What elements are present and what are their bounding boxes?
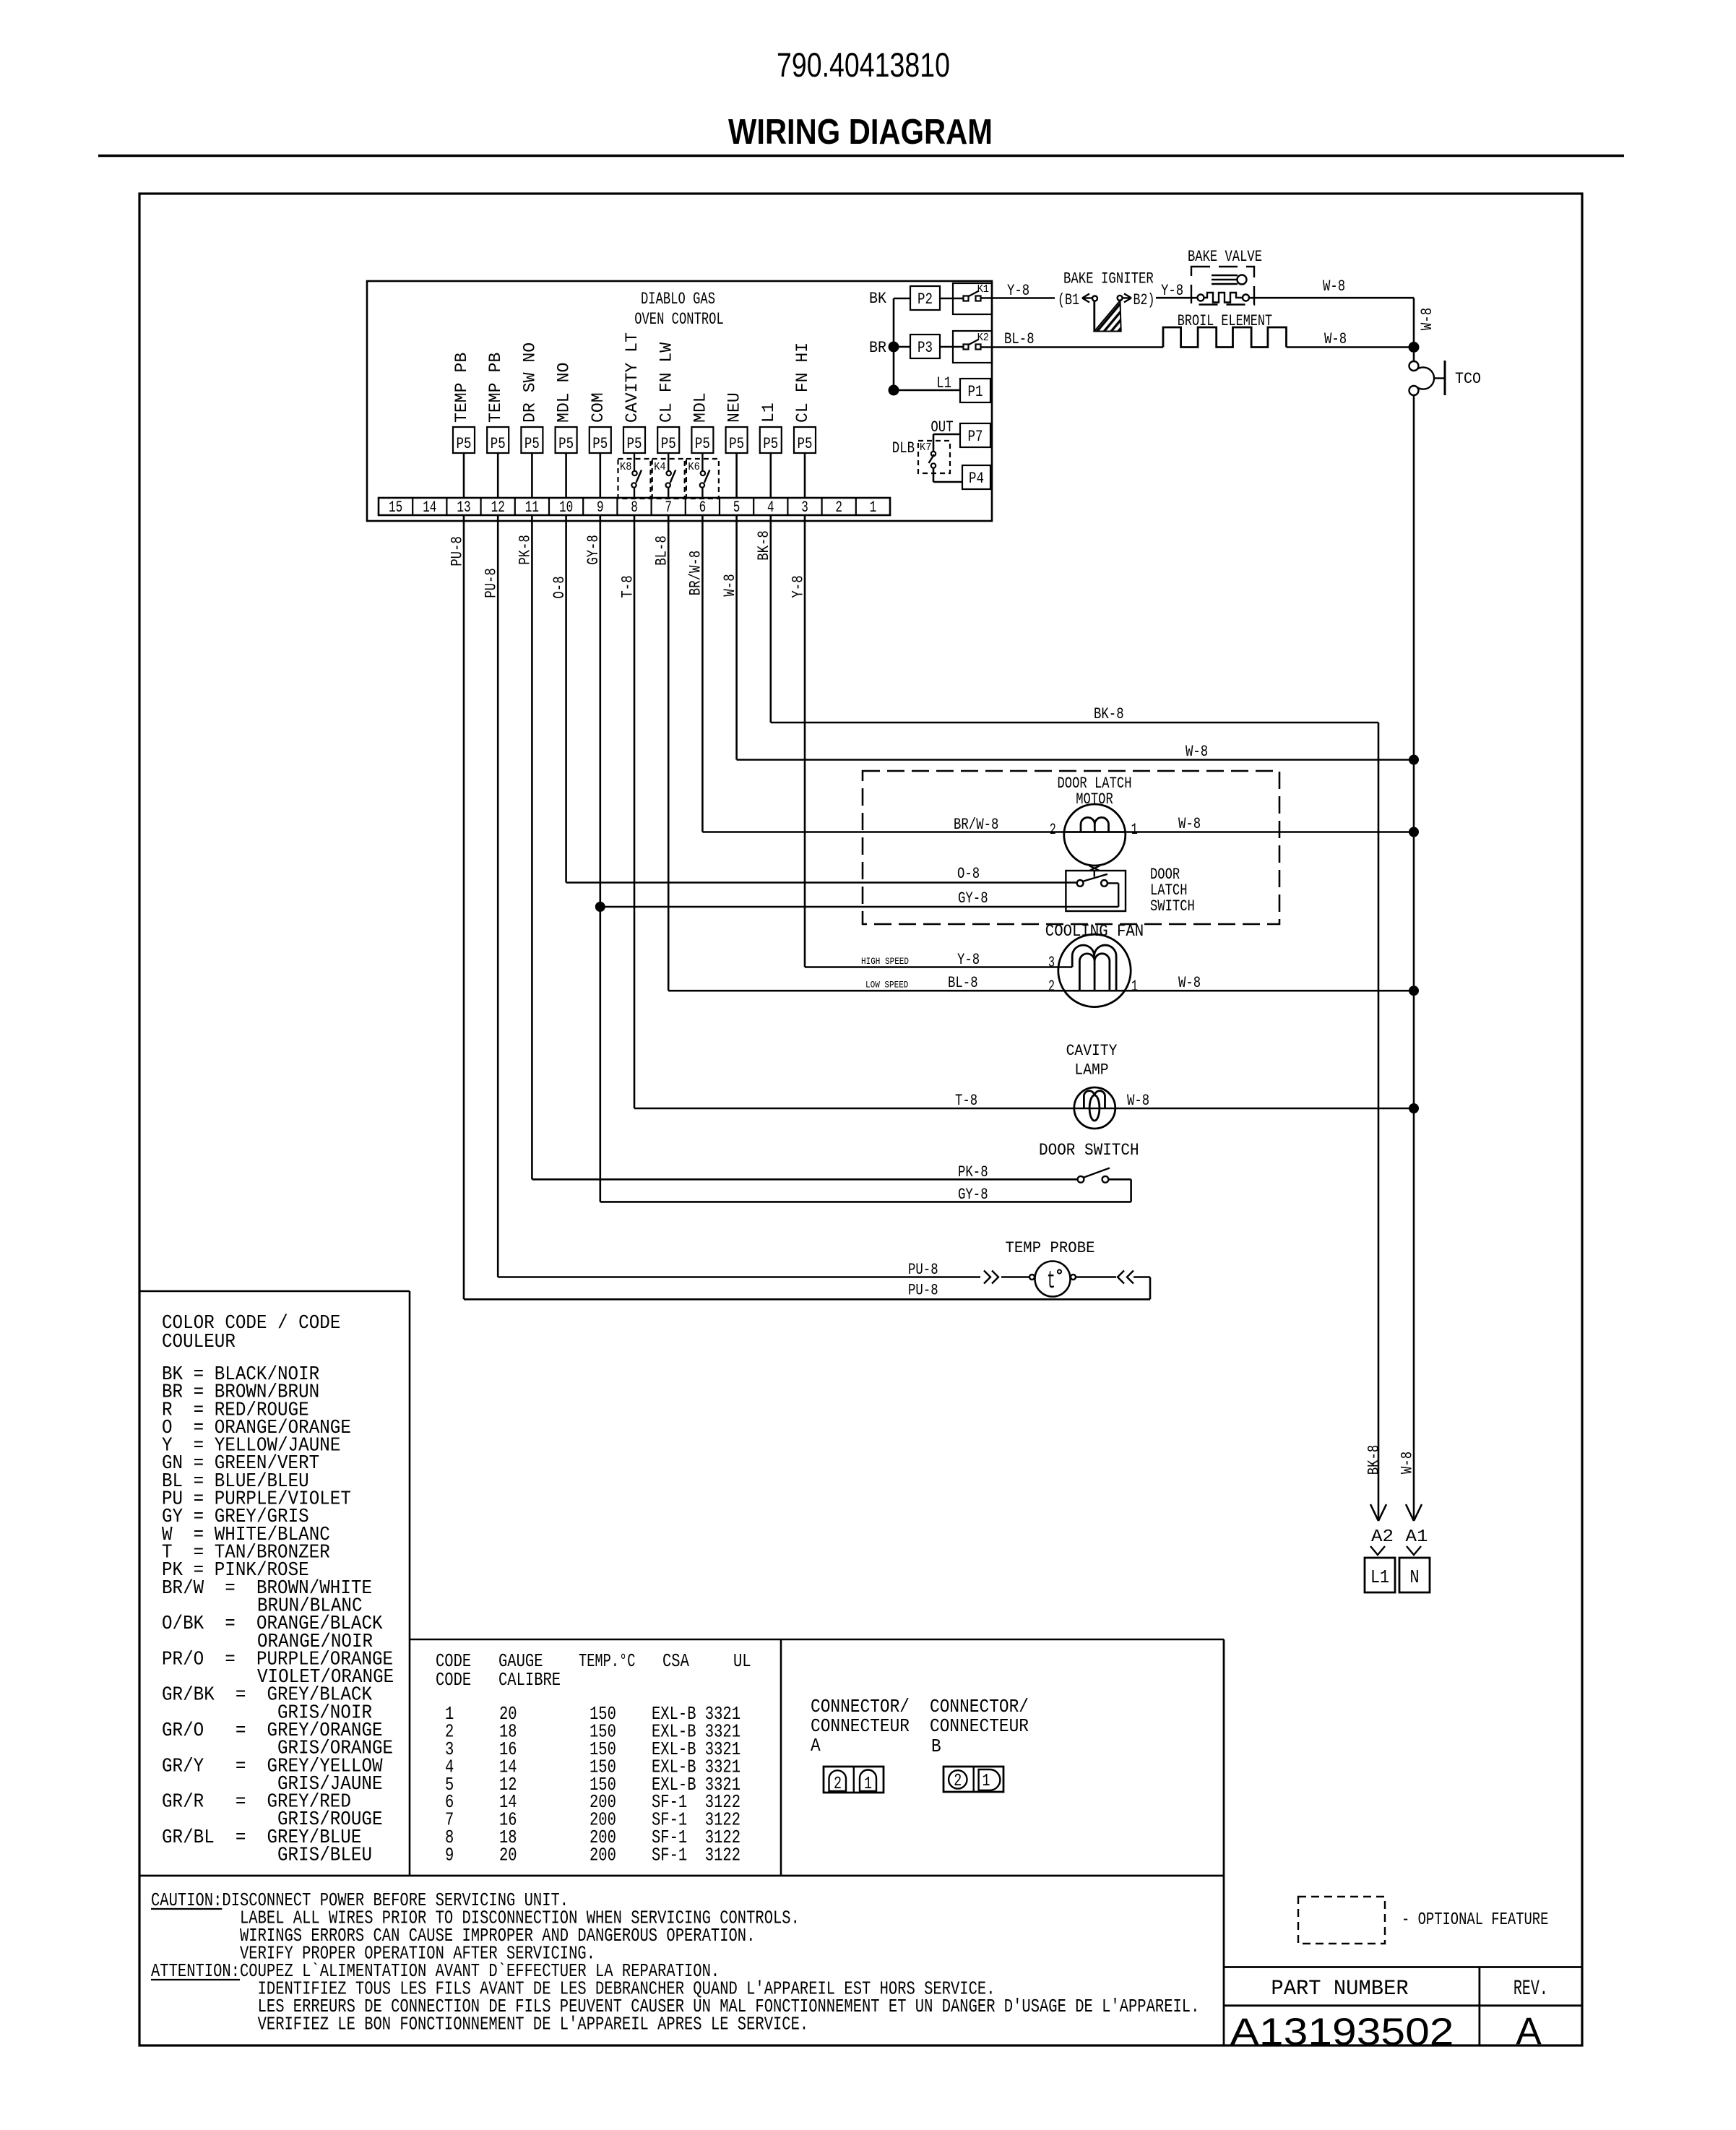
node A2 label xyxy=(1371,1527,1394,1547)
wire L1 to P1 xyxy=(894,374,960,392)
wire BR/W-8 from terminal 6 to door latch motor xyxy=(702,816,1064,834)
color code row O/BK = ORANGE/BLAC xyxy=(162,1613,383,1635)
svg-text:Y-8: Y-8 xyxy=(1161,282,1183,300)
label LOW SPEED xyxy=(865,980,909,991)
svg-text:9: 9 xyxy=(445,1845,454,1866)
text DLB label xyxy=(892,439,915,457)
svg-text:P3: P3 xyxy=(917,339,933,357)
wire BK to P2 xyxy=(894,298,910,300)
color code row BL = BLUE/BLEU xyxy=(162,1471,309,1493)
cavity lamp E1 xyxy=(1074,1087,1115,1129)
svg-text:P4: P4 xyxy=(969,470,984,488)
svg-text:1: 1 xyxy=(1131,978,1138,996)
svg-text:W-8: W-8 xyxy=(1178,974,1201,992)
svg-text:W-8: W-8 xyxy=(1324,330,1347,348)
chevron into N xyxy=(1407,1546,1421,1555)
text BAKE IGNITER xyxy=(1063,270,1154,288)
terminal 15 number label xyxy=(389,499,402,517)
gauge table row 5 xyxy=(445,1774,740,1795)
svg-text:L1: L1 xyxy=(759,402,778,423)
probe connector chevrons right xyxy=(1076,1271,1133,1284)
color code row BR = BROWN/BRUN xyxy=(162,1382,319,1404)
svg-text:NEU: NEU xyxy=(725,392,744,423)
svg-text:W-8: W-8 xyxy=(1127,1092,1149,1110)
door switch S1 xyxy=(1078,1168,1131,1202)
svg-text:P5: P5 xyxy=(457,435,472,453)
caution text line 6 xyxy=(258,1978,996,2000)
color code row GRIS/JAUNE xyxy=(277,1774,383,1795)
connector P5 (pin 8, CAVITY LT) xyxy=(623,332,645,453)
svg-text:CONNECTOR/: CONNECTOR/ xyxy=(811,1696,910,1717)
node BK bus (internal line-side bus) xyxy=(869,290,894,390)
svg-text:BR: BR xyxy=(869,339,886,357)
gauge table row 4 xyxy=(445,1756,740,1777)
svg-text:1: 1 xyxy=(983,1772,990,1791)
wire from P5 pin 10 to terminal 10 xyxy=(565,453,567,498)
motor-switch coupling xyxy=(1089,866,1100,871)
color code row R = RED/ROUGE xyxy=(162,1400,309,1421)
terminal box N xyxy=(1399,1558,1430,1592)
bake igniter hot surface element (hatched) xyxy=(1092,296,1123,332)
wire BL-8 from terminal 7 to cooling fan pin 2 xyxy=(668,974,1079,992)
wire OUT from P7 to K7 xyxy=(930,418,960,452)
svg-text:L1: L1 xyxy=(936,374,951,392)
connector P5 (pin 6, MDL) xyxy=(691,392,714,453)
svg-text:LOW SPEED: LOW SPEED xyxy=(865,980,909,991)
main border frame xyxy=(139,194,1582,2045)
oven control module box (DIABLO GAS OVEN CONTROL) xyxy=(367,281,992,521)
svg-text:P7: P7 xyxy=(968,428,983,446)
svg-text:CONNECTEUR: CONNECTEUR xyxy=(811,1715,910,1737)
svg-text:PK-8: PK-8 xyxy=(958,1163,988,1181)
svg-text:12: 12 xyxy=(491,499,505,517)
gauge table row 9 xyxy=(445,1845,740,1866)
terminal 11 number label xyxy=(525,499,539,517)
label pin 2 of door latch motor xyxy=(1050,821,1056,839)
text REV. xyxy=(1513,1977,1548,2001)
door latch motor M1 xyxy=(1064,804,1126,866)
text CONNECTOR/CONNECTEUR B xyxy=(930,1696,1029,1757)
label BK-8 vertical near arrow A2 xyxy=(1365,1445,1383,1475)
color code row BK = BLACK/NOIR xyxy=(162,1364,319,1386)
svg-text:COOLING FAN: COOLING FAN xyxy=(1045,922,1144,941)
caution text line 7 xyxy=(258,1996,1200,2017)
svg-text:CL FN LW: CL FN LW xyxy=(657,342,675,423)
text CONNECTOR/CONNECTEUR A xyxy=(811,1696,910,1756)
terminal 6 number label xyxy=(699,499,707,517)
node A1 label xyxy=(1406,1527,1428,1547)
gauge table row 1 xyxy=(445,1703,740,1725)
junction dot W-8 at fan run xyxy=(1409,986,1419,996)
svg-text:Y-8: Y-8 xyxy=(789,575,807,598)
relay contact K7 (DLB) xyxy=(918,441,950,473)
wire PU-8 vertical from terminal 13 xyxy=(448,515,466,1299)
caution text line 8 xyxy=(258,2014,809,2035)
relay contact K8 xyxy=(618,453,651,499)
svg-text:K7: K7 xyxy=(920,441,931,454)
wire from P5 pin 9 to terminal 9 xyxy=(599,453,601,498)
connector A pin diagram (pins 2 1) xyxy=(824,1767,884,1794)
temp probe sensor xyxy=(1029,1262,1076,1297)
svg-text:P5: P5 xyxy=(729,435,744,453)
text MOTOR xyxy=(1076,790,1113,809)
thermal cutoff TCO xyxy=(1409,353,1482,395)
svg-text:K2: K2 xyxy=(977,332,989,344)
svg-text:BL-8: BL-8 xyxy=(948,974,978,992)
terminal 1 number label xyxy=(870,499,877,517)
svg-text:MDL NO: MDL NO xyxy=(555,363,574,423)
svg-text:PU-8: PU-8 xyxy=(483,568,501,598)
caution text line 4 xyxy=(240,1943,595,1965)
relay contact K4 xyxy=(652,453,685,499)
svg-text:7: 7 xyxy=(665,499,672,517)
text COLOR CODE / CODE COULEUR heading xyxy=(162,1313,340,1353)
text DIABLO GAS xyxy=(641,290,715,309)
svg-text:BL-8: BL-8 xyxy=(1004,330,1035,348)
svg-text:K8: K8 xyxy=(620,461,631,473)
caution text line 5 xyxy=(151,1960,720,1982)
svg-text:O-8: O-8 xyxy=(550,576,569,598)
svg-text:2: 2 xyxy=(1048,978,1055,996)
svg-text:BL-8: BL-8 xyxy=(653,535,671,566)
connector P5 (pin 9, COM) xyxy=(589,392,611,453)
svg-text:2: 2 xyxy=(834,1775,842,1794)
svg-text:PU-8: PU-8 xyxy=(908,1261,938,1279)
title block left edge xyxy=(1223,1639,1225,2045)
svg-text:BR/W-8: BR/W-8 xyxy=(687,551,705,595)
wire BK-8 vertical from terminal 4 xyxy=(755,515,773,723)
connector B pin diagram (pins 2 1) xyxy=(943,1767,1003,1792)
wire O-8 from terminal 10 to door latch switch xyxy=(566,865,1077,883)
optional feature dashed box xyxy=(1298,1897,1385,1944)
wire BL-8 vertical from terminal 7 xyxy=(653,515,671,991)
svg-text:DLB: DLB xyxy=(892,439,915,457)
svg-text:790.40413810: 790.40413810 xyxy=(777,46,950,84)
svg-text:BAKE IGNITER: BAKE IGNITER xyxy=(1063,270,1154,288)
svg-text:A2: A2 xyxy=(1371,1527,1394,1547)
color code row GR/BK = GREY/BLACK xyxy=(162,1685,373,1707)
caution text line 2 xyxy=(240,1907,800,1929)
text OVEN CONTROL xyxy=(634,310,724,329)
svg-text:1: 1 xyxy=(870,499,877,517)
wire from P5 pin 4 to terminal 4 xyxy=(770,453,772,498)
svg-text:W-8: W-8 xyxy=(721,574,739,596)
svg-text:15: 15 xyxy=(389,499,402,517)
wire W-8 vertical from terminal 5 xyxy=(721,515,739,760)
wire O-8 vertical from terminal 10 xyxy=(550,515,569,883)
svg-text:P5: P5 xyxy=(695,435,710,453)
svg-text:BROIL ELEMENT: BROIL ELEMENT xyxy=(1178,312,1272,330)
cooling fan motor M2 xyxy=(1058,934,1131,1006)
svg-text:GRIS/BLEU: GRIS/BLEU xyxy=(277,1845,372,1867)
wire BR/W-8 vertical from terminal 6 xyxy=(687,515,705,832)
label W-8 vertical near arrow A1 xyxy=(1398,1452,1416,1474)
color code row VIOLET/ORANGE xyxy=(257,1667,394,1689)
connector P5 (pin 5, NEU) xyxy=(725,392,748,453)
terminal 3 number label xyxy=(801,499,808,517)
wire from P5 pin 13 to terminal 13 xyxy=(463,453,465,498)
plug P3 xyxy=(910,335,940,358)
svg-text:3: 3 xyxy=(801,499,808,517)
color code row PR/O = PURPLE/ORAN xyxy=(162,1649,393,1670)
terminal 10 number label xyxy=(559,499,573,517)
connector P5 (pin 7, CL FN LW) xyxy=(657,342,679,453)
color code row PK = PINK/ROSE xyxy=(162,1560,309,1582)
text TEMP PROBE xyxy=(1006,1239,1095,1257)
svg-text:BR/W-8: BR/W-8 xyxy=(954,816,998,834)
svg-text:A1: A1 xyxy=(1406,1527,1428,1547)
svg-text:Y-8: Y-8 xyxy=(957,951,980,969)
svg-text:TEMP PROBE: TEMP PROBE xyxy=(1006,1239,1095,1257)
svg-text:20: 20 xyxy=(499,1845,517,1866)
caution text line 1 xyxy=(151,1889,569,1911)
junction dot W-8 at terminal5 run xyxy=(1409,755,1419,765)
terminal 14 number label xyxy=(423,499,436,517)
color code row BRUN/BLANC xyxy=(257,1595,363,1617)
color code row BR/W = BROWN/WHITE xyxy=(162,1578,372,1600)
probe connector chevrons left xyxy=(984,1271,1029,1284)
color code row T = TAN/BRONZER xyxy=(162,1543,330,1564)
label pin 1 of cooling fan xyxy=(1131,978,1138,996)
door latch switch xyxy=(1066,871,1126,911)
label pin 3 of cooling fan xyxy=(1048,954,1055,972)
connector P5 (pin 11, DR SW NO) xyxy=(521,342,543,453)
text CAVITY LAMP xyxy=(1066,1042,1118,1079)
color code row GRIS/BLEU xyxy=(277,1845,372,1867)
svg-text:P5: P5 xyxy=(763,435,778,453)
text BROIL ELEMENT xyxy=(1178,312,1272,330)
svg-text:P5: P5 xyxy=(558,435,574,453)
wire GY-8 vertical from terminal 9 xyxy=(584,515,603,1202)
color code row GN = GREEN/VERT xyxy=(162,1453,319,1475)
title underline rule xyxy=(98,155,1624,157)
label W-8 vertical at rail top xyxy=(1418,308,1436,330)
svg-text:MOTOR: MOTOR xyxy=(1076,790,1113,809)
plug P4 xyxy=(962,465,990,489)
svg-text:P5: P5 xyxy=(798,435,813,453)
chevron into L1 xyxy=(1370,1546,1385,1555)
svg-text:CL FN HI: CL FN HI xyxy=(793,342,812,423)
svg-text:MDL: MDL xyxy=(691,392,710,423)
connector P5 (pin 13, TEMP PB) xyxy=(452,353,475,453)
wire gauge table box xyxy=(410,1639,1224,1876)
connector P5 (pin 10, MDL NO) xyxy=(555,363,577,453)
svg-text:P2: P2 xyxy=(917,290,933,309)
text - OPTIONAL FEATURE xyxy=(1402,1910,1548,1930)
wire Y-8 from K1 to bake igniter B1 xyxy=(981,282,1055,300)
gauge table row 2 xyxy=(445,1720,740,1742)
terminal 2 number label xyxy=(835,499,842,517)
svg-text:W-8: W-8 xyxy=(1398,1452,1416,1474)
svg-text:5: 5 xyxy=(733,499,740,517)
svg-text:T-8: T-8 xyxy=(955,1092,977,1110)
svg-text:B: B xyxy=(931,1736,941,1757)
svg-text:3: 3 xyxy=(1048,954,1055,972)
svg-text:COULEUR: COULEUR xyxy=(162,1332,236,1353)
color code row GY = GREY/GRIS xyxy=(162,1506,309,1528)
color code row Y = YELLOW/JAUNE xyxy=(162,1436,340,1457)
color code row GR/R = GREY/RED xyxy=(162,1792,351,1814)
svg-text:2: 2 xyxy=(1050,821,1056,839)
svg-text:A: A xyxy=(1516,2010,1542,2053)
terminal 5 number label xyxy=(733,499,740,517)
svg-text:t: t xyxy=(1047,1268,1055,1295)
svg-text:P5: P5 xyxy=(661,435,676,453)
svg-text:(B1: (B1 xyxy=(1058,291,1079,309)
text PART NUMBER xyxy=(1271,1977,1408,2001)
svg-text:CAVITY LT: CAVITY LT xyxy=(623,332,642,423)
underline CAUTION xyxy=(151,1908,222,1910)
color code row ORANGE/NOIR xyxy=(257,1631,373,1653)
label HIGH SPEED xyxy=(861,956,909,967)
svg-text:REV.: REV. xyxy=(1513,1977,1548,2001)
junction dot L1 on bus xyxy=(889,385,899,396)
wire BR to P3 xyxy=(894,346,910,348)
arrowhead W-8 to A1 xyxy=(1406,1504,1422,1521)
text DOOR LATCH xyxy=(1058,775,1132,793)
wire BK-8 horizontal run to bottom arrow xyxy=(771,705,1378,1521)
wire W-8 from cavity lamp to rail xyxy=(1094,1092,1414,1110)
text BAKE VALVE xyxy=(1188,248,1262,266)
svg-text:COM: COM xyxy=(589,392,608,423)
wire Y-8 from igniter to bake valve xyxy=(1156,282,1198,300)
wire GY-8 branch to door latch switch xyxy=(600,889,1118,907)
relay contact K2 xyxy=(953,331,992,363)
wire PU-8 probe return to terminal 13 xyxy=(464,1277,1150,1300)
broil element (square-wave heating element) xyxy=(1163,327,1287,348)
svg-text:TEMP.°C: TEMP.°C xyxy=(579,1650,635,1672)
wire K7 to P4 xyxy=(933,468,962,482)
svg-text:N: N xyxy=(1410,1566,1420,1588)
svg-text:8: 8 xyxy=(631,499,638,517)
igniter connector B2 (arrow and chevron) xyxy=(1123,291,1155,309)
text model number 790.40413810 xyxy=(777,46,950,84)
svg-text:PK-8: PK-8 xyxy=(517,535,535,565)
svg-text:CODE: CODE xyxy=(436,1669,471,1691)
svg-text:T-8: T-8 xyxy=(618,575,636,598)
connector P5 (pin 12, TEMP PB) xyxy=(486,353,509,453)
svg-text:BK-8: BK-8 xyxy=(1365,1445,1383,1475)
gauge table row 3 xyxy=(445,1738,740,1760)
svg-text:TEMP PB: TEMP PB xyxy=(486,353,505,423)
svg-text:BK-8: BK-8 xyxy=(1094,705,1124,723)
svg-text:PU-8: PU-8 xyxy=(448,536,466,566)
svg-text:W-8: W-8 xyxy=(1186,743,1208,761)
svg-text:P5: P5 xyxy=(491,435,506,453)
relay contact K1 xyxy=(953,283,992,314)
svg-text:P5: P5 xyxy=(627,435,642,453)
wire Y-8 from terminal 3 to cooling fan pin 3 xyxy=(805,951,1072,969)
wire from P5 pin 3 to terminal 3 xyxy=(804,453,806,498)
wire W-8 from motor pin 1 to rail xyxy=(1126,815,1414,833)
wire P3 to K2 xyxy=(940,346,964,348)
wire Y-8 vertical from terminal 3 xyxy=(789,515,807,967)
svg-text:4: 4 xyxy=(767,499,774,517)
text revision A xyxy=(1516,2010,1542,2053)
text DOOR SWITCH xyxy=(1039,1141,1139,1160)
wire from P5 pin 11 to terminal 11 xyxy=(531,453,533,498)
svg-text:W-8: W-8 xyxy=(1178,815,1201,833)
svg-text:BAKE VALVE: BAKE VALVE xyxy=(1188,248,1262,266)
terminal 12 number label xyxy=(491,499,505,517)
svg-text:W-8: W-8 xyxy=(1323,277,1345,296)
svg-text:WIRING DIAGRAM: WIRING DIAGRAM xyxy=(728,113,993,152)
caution separator line xyxy=(139,1875,1224,1877)
svg-text:UL: UL xyxy=(733,1650,751,1672)
junction dot BR on bus xyxy=(869,339,899,357)
svg-text:P1: P1 xyxy=(968,383,983,401)
arrowhead BK-8 to A2 xyxy=(1370,1504,1386,1521)
svg-text:6: 6 xyxy=(699,499,707,517)
svg-text:200: 200 xyxy=(590,1845,616,1866)
color code row O = ORANGE/ORANGE xyxy=(162,1418,351,1439)
terminal 9 number label xyxy=(597,499,604,517)
wire PU-8 from terminal 12 to probe connector xyxy=(498,1261,980,1279)
svg-text:CSA: CSA xyxy=(662,1650,689,1672)
svg-text:K6: K6 xyxy=(688,461,699,473)
wire PK-8 from terminal 11 to door switch xyxy=(532,1163,1077,1181)
svg-text:OUT: OUT xyxy=(930,418,953,436)
color code row PU = PURPLE/VIOLET xyxy=(162,1489,351,1511)
underline ATTENTION xyxy=(151,1979,240,1980)
svg-text:GY-8: GY-8 xyxy=(958,1186,988,1204)
label pin 1 of door latch motor xyxy=(1131,821,1138,839)
svg-text:- OPTIONAL FEATURE: - OPTIONAL FEATURE xyxy=(1402,1910,1548,1930)
svg-text:CONNECTOR/: CONNECTOR/ xyxy=(930,1696,1029,1717)
svg-text:LAMP: LAMP xyxy=(1074,1061,1108,1079)
svg-text:1: 1 xyxy=(864,1775,872,1794)
svg-text:PU-8: PU-8 xyxy=(908,1282,938,1300)
wire GY-8 from terminal 9 to door switch return xyxy=(600,1186,1131,1204)
svg-text:1: 1 xyxy=(1131,821,1138,839)
wire W-8 from broil element to junction xyxy=(1287,330,1415,348)
gauge table row 6 xyxy=(445,1791,740,1813)
plug P7 xyxy=(960,423,990,447)
svg-text:K1: K1 xyxy=(977,283,989,296)
svg-text:CALIBRE: CALIBRE xyxy=(498,1669,561,1691)
svg-text:K4: K4 xyxy=(654,461,665,473)
junction dot W-8 at motor run xyxy=(1409,827,1419,837)
color code row GRIS/NOIR xyxy=(277,1702,372,1724)
connector P5 (pin 3, CL FN HI) xyxy=(793,342,816,453)
svg-text:BK-8: BK-8 xyxy=(755,530,773,561)
caution text line 3 xyxy=(240,1925,755,1946)
text DOOR LATCH SWITCH xyxy=(1150,866,1195,915)
svg-text:DR SW NO: DR SW NO xyxy=(521,342,540,423)
terminal 8 number label xyxy=(631,499,638,517)
wire P2 to K1 xyxy=(940,298,964,300)
svg-text:P5: P5 xyxy=(524,435,540,453)
part number table frame xyxy=(1224,1967,1582,2046)
svg-text:P5: P5 xyxy=(592,435,608,453)
color code row W = WHITE/BLANC xyxy=(162,1525,330,1546)
svg-text:W-8: W-8 xyxy=(1418,308,1436,330)
wire T-8 vertical from terminal 8 xyxy=(618,515,636,1108)
wire from P5 pin 12 to terminal 12 xyxy=(497,453,499,498)
svg-text:10: 10 xyxy=(559,499,573,517)
gauge table row 7 xyxy=(445,1809,740,1831)
wire W-8 from bake valve to W-8 rail xyxy=(1249,277,1414,348)
terminal strip P5 header (15..1) xyxy=(379,498,890,515)
svg-text:O-8: O-8 xyxy=(957,865,980,883)
wire T-8 from terminal 8 to cavity lamp xyxy=(634,1092,1094,1110)
svg-text:B2): B2) xyxy=(1133,291,1155,309)
connector P5 (pin 4, L1) xyxy=(759,402,782,453)
color code row GR/O = GREY/ORANG xyxy=(162,1720,383,1742)
wire from P5 pin 5 to terminal 5 xyxy=(735,453,738,498)
text COOLING FAN xyxy=(1045,922,1144,941)
svg-text:2: 2 xyxy=(835,499,842,517)
